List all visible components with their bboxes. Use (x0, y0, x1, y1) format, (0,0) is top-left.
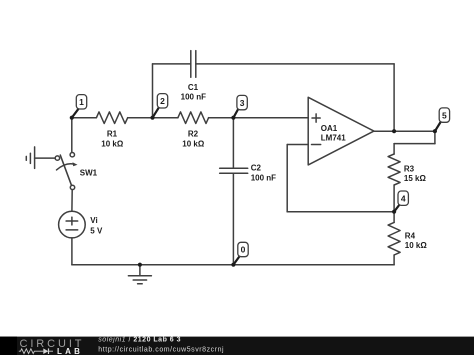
node 2 (153, 94, 168, 118)
voltage source Vi (59, 211, 86, 238)
junction: ground rail dot (138, 263, 142, 267)
svg-text:100 nF: 100 nF (251, 174, 276, 183)
svg-text:OA1: OA1 (321, 124, 338, 133)
svg-text:1: 1 (79, 97, 84, 107)
node 4 (394, 191, 408, 212)
svg-text:10 kΩ: 10 kΩ (182, 140, 205, 149)
svg-text:SW1: SW1 (80, 168, 98, 177)
node 1 (72, 95, 87, 118)
wire: R4 top lead (393, 212, 395, 223)
wire: node5 corner left to R3 column (394, 143, 435, 145)
junction: node 3 dot (231, 116, 235, 120)
footer logo resistor squiggle (19, 349, 39, 354)
switch SW1 (55, 153, 77, 190)
svg-text:15 kΩ: 15 kΩ (404, 174, 427, 183)
svg-text:C1: C1 (188, 83, 199, 92)
wire: R4 bottom lead to ground rail (393, 255, 395, 265)
svg-text:R2: R2 (188, 129, 199, 138)
svg-text:4: 4 (401, 193, 406, 203)
svg-text:10 kΩ: 10 kΩ (101, 140, 124, 149)
junction: node 1 dot (70, 116, 74, 120)
svg-text:100 nF: 100 nF (181, 93, 206, 102)
ground (rotated, switch left throw) (26, 147, 34, 169)
wire: node2 up to C1 branch (152, 64, 154, 118)
wire: node3 to op-amp + input (233, 117, 308, 119)
svg-text:0: 0 (241, 245, 246, 255)
wire: bottom ground rail (72, 264, 394, 266)
wire: node1 down to switch (71, 118, 73, 153)
node 0 (233, 242, 248, 264)
wire: node3 down to C2 (232, 118, 234, 169)
wire: node5 down (434, 131, 436, 143)
resistor R4 (388, 222, 400, 255)
junction: node 0 dot (231, 263, 235, 267)
wire: R3 top lead (393, 144, 395, 154)
resistor R1 (96, 112, 127, 124)
svg-text:LM741: LM741 (321, 134, 346, 143)
junction: node 5 dot (433, 129, 437, 133)
junction: node 4 dot (392, 210, 396, 214)
svg-text:C2: C2 (251, 164, 262, 173)
resistor R2 (178, 112, 209, 124)
wire: R1 to node2 (128, 117, 153, 119)
junction: node 2 dot (150, 116, 154, 120)
ground (main) (128, 265, 151, 284)
svg-text:R3: R3 (404, 164, 415, 173)
svg-text:5: 5 (442, 110, 447, 120)
svg-text:5 V: 5 V (90, 226, 103, 235)
svg-text:LAB: LAB (57, 347, 83, 355)
wire: C1 left lead (153, 63, 191, 65)
svg-text:http://circuitlab.com/cuw5svr8: http://circuitlab.com/cuw5svr8zcrnj (98, 347, 224, 354)
capacitor C2 (220, 168, 248, 173)
wire: C1 right lead to feedback corner (196, 63, 394, 65)
wire: switch left throw to rotated ground (35, 157, 56, 159)
wire: Vi down to ground rail (71, 238, 73, 265)
svg-text:Vi: Vi (90, 216, 97, 225)
svg-text:R4: R4 (405, 231, 416, 240)
op-amp OA1 (308, 97, 374, 165)
wire: op-amp output to node5 (374, 130, 435, 132)
svg-text:10 kΩ: 10 kΩ (405, 241, 428, 250)
junction: output feedback dot (392, 129, 396, 133)
svg-text:solejni1 / 2120 Lab 6 3: solejni1 / 2120 Lab 6 3 (98, 337, 181, 344)
node 5 (435, 108, 450, 131)
wire: R2 to node3 (209, 117, 234, 119)
resistor R3 (388, 154, 400, 185)
svg-text:R1: R1 (107, 129, 118, 138)
wire: - input feedback horizontal to node4 (287, 211, 394, 213)
wire: C2 down to node0 on ground rail (232, 173, 234, 264)
footer logo diode (39, 348, 54, 354)
wire: feedback down to output junction (393, 64, 395, 131)
wire: op-amp - input stub left (287, 144, 308, 146)
node 3 (233, 95, 247, 117)
wire: switch common down to Vi (71, 190, 73, 212)
svg-text:3: 3 (240, 98, 245, 108)
wire: top rail node1 to R1 (72, 117, 97, 119)
capacitor C1 (191, 51, 196, 78)
svg-text:2: 2 (160, 96, 165, 106)
wire: R3 bottom lead to node4 (393, 185, 395, 212)
footer bar (0, 337, 474, 355)
wire: node2 to R2 (153, 117, 178, 119)
wire: - input feedback vertical (286, 145, 288, 212)
